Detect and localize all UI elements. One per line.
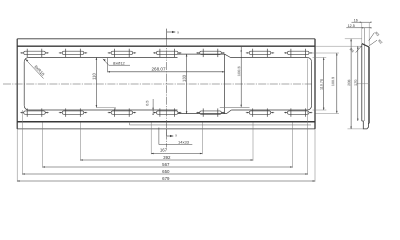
dim 167 xyxy=(151,123,202,155)
center pocket bottom line xyxy=(178,113,227,115)
label 8xO12 leader xyxy=(103,59,130,66)
dim 100.5 (vertical, center) xyxy=(236,47,242,107)
svg-text:16: 16 xyxy=(354,18,358,22)
slot T5 xyxy=(196,49,224,57)
inner recess outline bottom right segment xyxy=(231,109,307,111)
inner recess corner bottom-right R10 xyxy=(307,106,311,110)
side view inner face line xyxy=(363,28,365,121)
leader R2 xyxy=(369,39,383,46)
slot B6 xyxy=(246,108,274,116)
plate outer right edge xyxy=(314,39,316,129)
svg-text:110: 110 xyxy=(92,72,97,79)
side view left edge xyxy=(361,44,363,121)
svg-text:679: 679 xyxy=(162,176,170,181)
horizontal centerline xyxy=(3,83,312,85)
inner recess corner top-left R10 xyxy=(24,58,28,62)
inner recess corner top-right R10 xyxy=(307,58,311,62)
svg-text:100.5: 100.5 xyxy=(331,77,335,86)
center pocket bottom chamfer xyxy=(227,110,232,114)
dim 110.76 xyxy=(313,58,327,111)
slot T4 xyxy=(153,49,181,57)
svg-text:8xØ12: 8xØ12 xyxy=(113,61,126,66)
inner recess outline top right segment xyxy=(231,57,308,59)
svg-text:392: 392 xyxy=(163,155,171,160)
svg-text:6.5: 6.5 xyxy=(145,101,149,106)
dim 110 (vertical, left) xyxy=(92,58,116,111)
slot T1 xyxy=(20,49,48,57)
slot B7 xyxy=(284,108,312,116)
svg-text:100.5: 100.5 xyxy=(236,66,241,77)
dim 567 xyxy=(43,123,293,168)
slot B2 xyxy=(59,108,87,116)
slot B5 xyxy=(196,108,224,116)
slot B1 xyxy=(20,108,48,116)
center pocket right edge xyxy=(224,54,226,114)
vertical centerline xyxy=(166,39,168,148)
slot T6 xyxy=(246,49,274,57)
slot B3 xyxy=(108,108,136,116)
svg-text:14x33: 14x33 xyxy=(178,140,190,145)
inner recess left edge xyxy=(23,62,25,106)
bottom step line xyxy=(129,124,311,126)
dim 268.07 xyxy=(108,58,225,73)
svg-text:110.76: 110.76 xyxy=(320,79,324,90)
side view top slant xyxy=(362,44,369,47)
plate top edge xyxy=(17,38,315,40)
svg-text:167: 167 xyxy=(160,147,168,152)
svg-text:133: 133 xyxy=(182,74,187,82)
label 14x33 leader xyxy=(159,128,192,145)
dim 170 xyxy=(316,46,362,121)
top origin marker xyxy=(167,29,180,39)
slot T7 xyxy=(284,49,312,57)
bottom step left riser xyxy=(128,122,130,125)
dim 100.5 right xyxy=(309,53,340,113)
inner recess outline bottom left segment xyxy=(29,109,178,111)
svg-text:12.5: 12.5 xyxy=(348,24,355,28)
dim 6.5 xyxy=(145,99,154,115)
svg-text:x: x xyxy=(177,30,179,34)
side view right edge xyxy=(368,47,370,123)
slot T2 xyxy=(59,49,87,57)
svg-text:650: 650 xyxy=(162,169,170,174)
dim 16 xyxy=(352,18,372,46)
plate outer left edge xyxy=(16,39,18,129)
dim 392 xyxy=(80,123,253,161)
leader R4 xyxy=(349,46,362,54)
slot T3 xyxy=(108,49,136,57)
center pocket top chamfer xyxy=(225,54,231,57)
svg-text:170: 170 xyxy=(354,80,358,86)
side view bottom and tongue profile xyxy=(362,121,369,129)
dim 133 (vertical, pocket) xyxy=(182,54,188,114)
pocket corner center mark xyxy=(220,106,250,108)
inner recess outline top left segment xyxy=(29,57,178,59)
svg-text:x: x xyxy=(175,134,177,138)
top band line xyxy=(17,45,315,47)
dim 12.5 xyxy=(346,24,371,29)
bottom origin marker xyxy=(167,129,178,137)
inner recess right edge xyxy=(311,62,313,106)
dim 679 xyxy=(17,129,315,182)
svg-text:206: 206 xyxy=(347,80,351,86)
dim 650 xyxy=(22,59,307,175)
center pocket top line xyxy=(178,53,225,55)
bottom tongue edge xyxy=(17,128,315,130)
slot B4 xyxy=(153,108,181,116)
label 6xR10 leader xyxy=(25,59,45,78)
side view center tick xyxy=(357,83,370,85)
leader R3 xyxy=(369,31,380,41)
inner recess corner bottom-left R10 xyxy=(24,106,28,110)
svg-text:268.07: 268.07 xyxy=(151,66,165,71)
dim 206 xyxy=(345,39,364,129)
plate bottom face line xyxy=(17,121,315,123)
svg-text:567: 567 xyxy=(162,162,170,167)
